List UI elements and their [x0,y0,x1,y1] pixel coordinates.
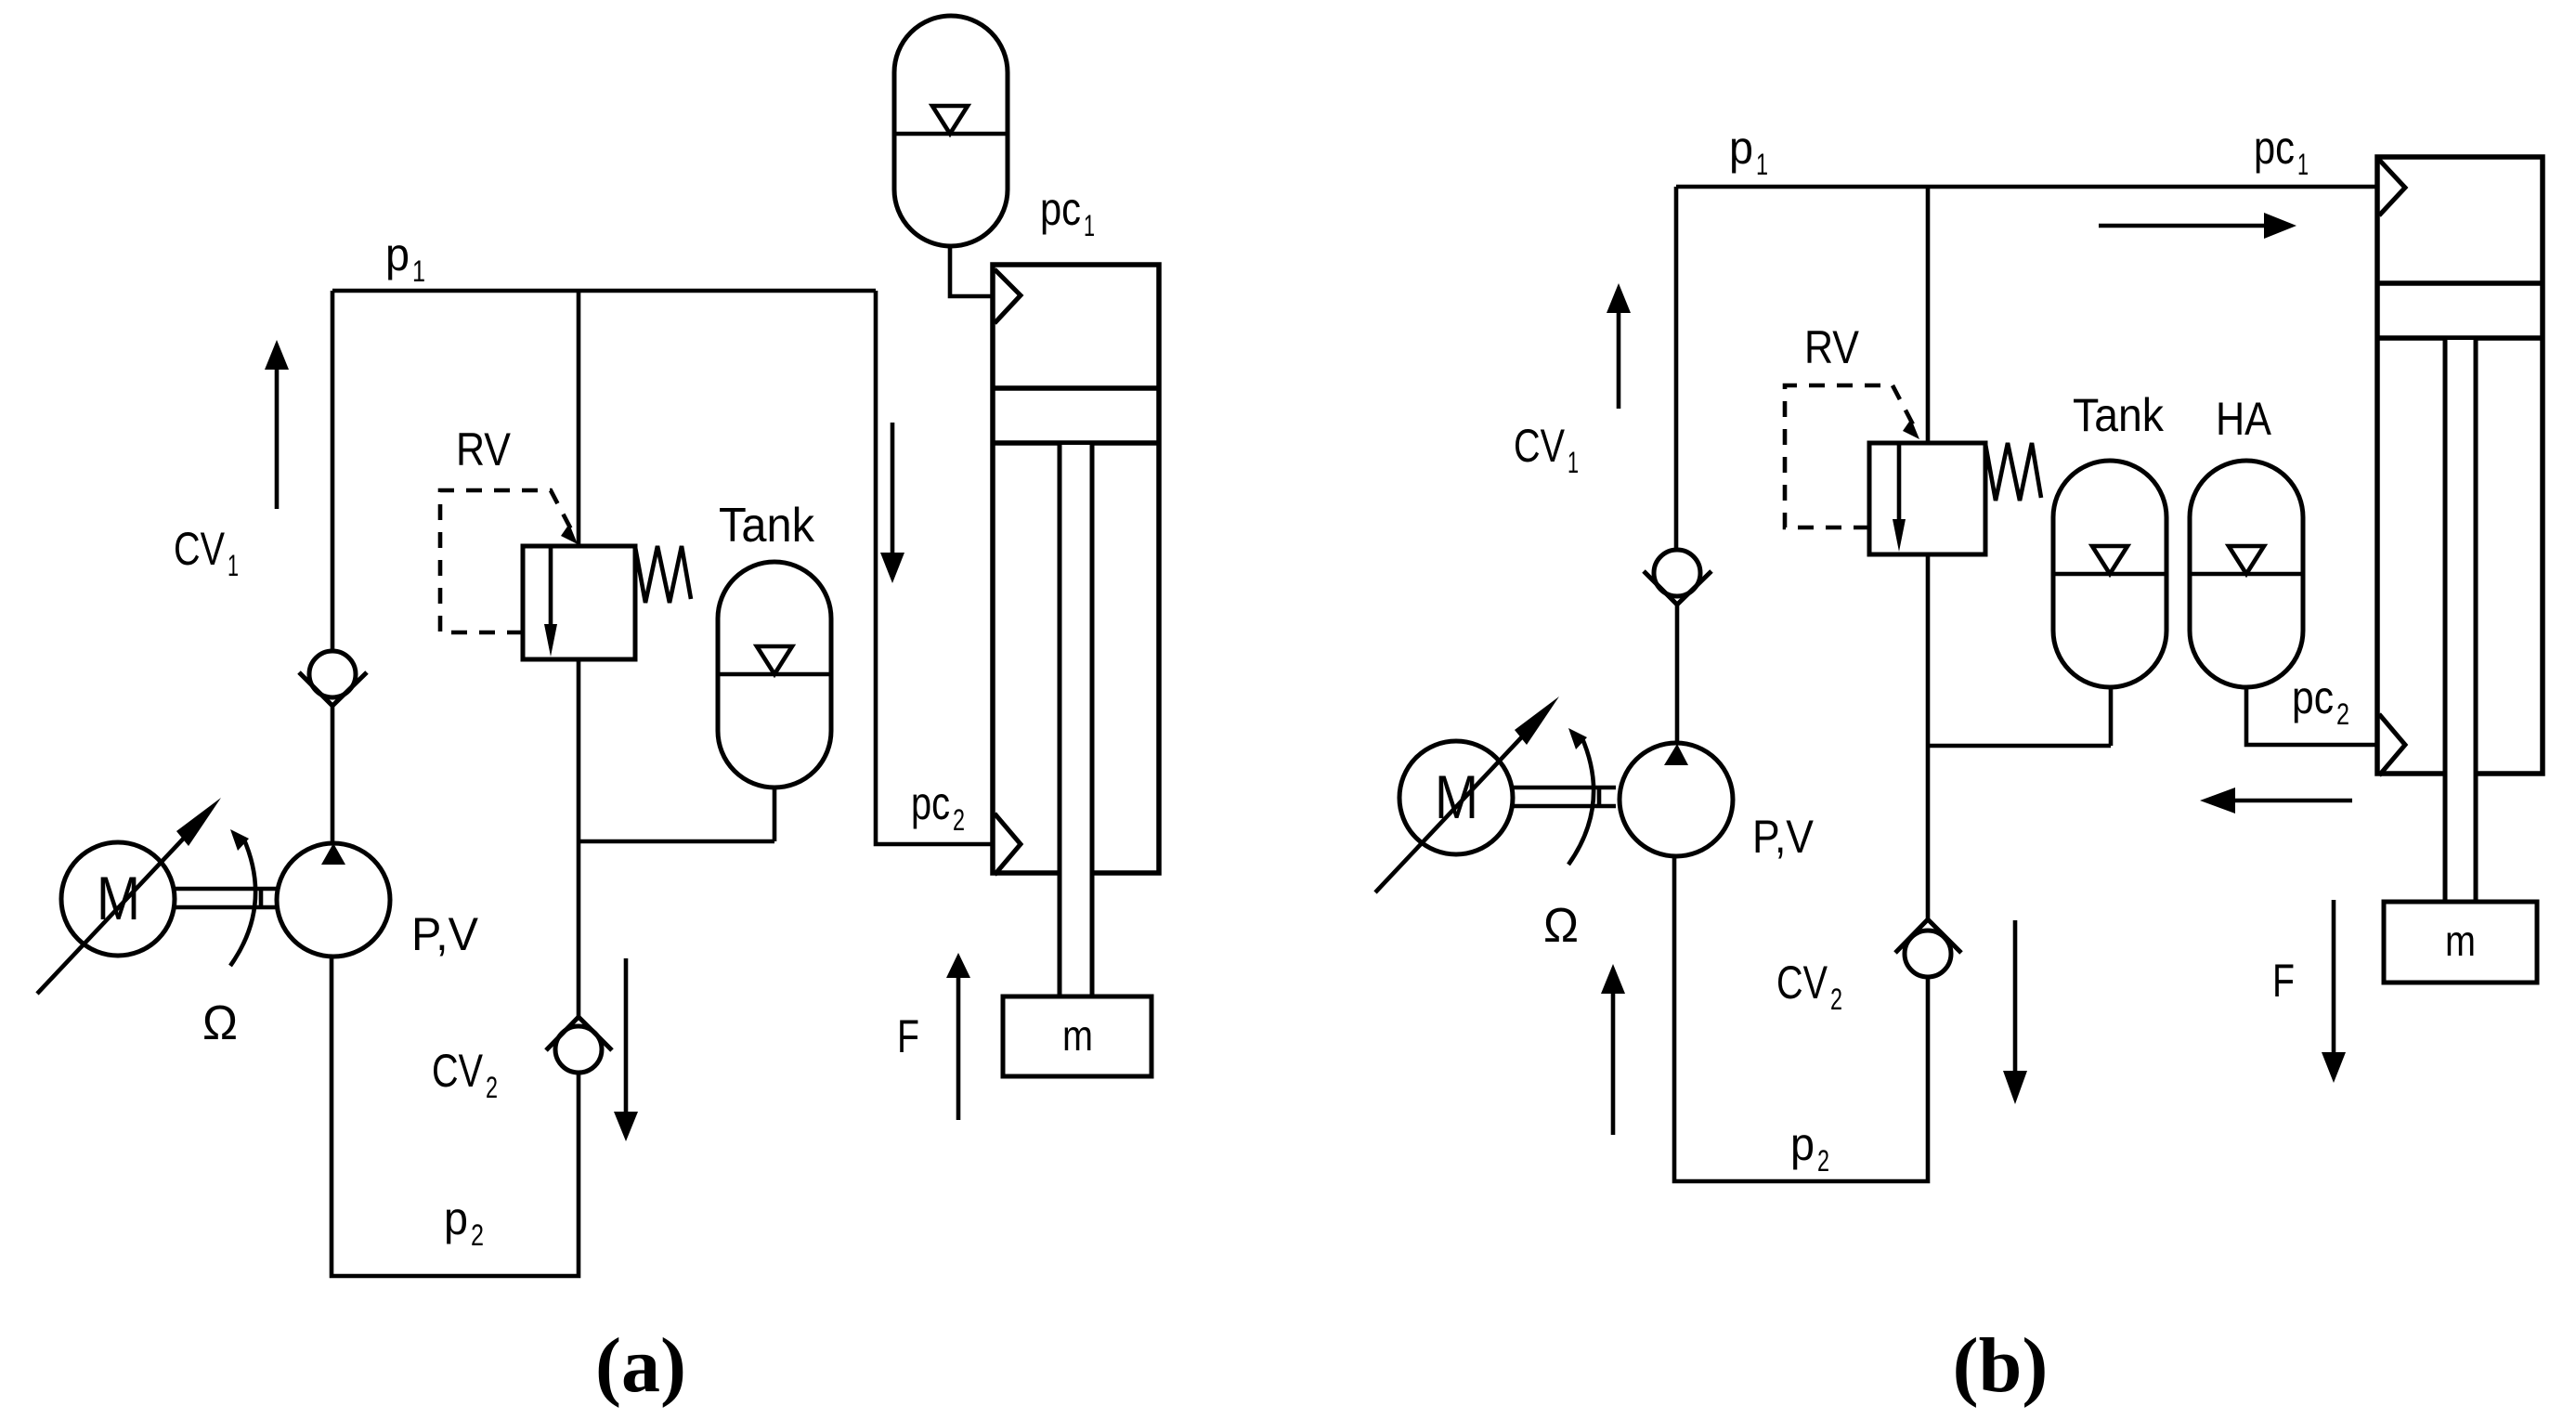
wire p1 to pc2 port (a) [876,291,993,844]
svg-text:pc: pc [2292,671,2334,723]
wire p1 to RV (a) [577,291,581,546]
pump P,V (b) [1620,743,1733,856]
svg-text:2: 2 [486,1071,498,1104]
rotation arrow omega (b) [1568,736,1594,865]
svg-text:pc: pc [2254,122,2295,174]
svg-text:pc: pc [1040,183,1081,235]
wire left branch CV1 (b) [1674,187,1679,549]
flow arrow up CV1 (a) [275,370,280,509]
mass m (b) [2384,902,2537,983]
wire pump to p2 and p2 line and CV2 riser (b) [1674,856,1928,1181]
svg-text:1: 1 [1084,209,1095,242]
piston rod (b) [2447,340,2474,902]
svg-text:2: 2 [1830,983,1842,1016]
svg-text:Ω: Ω [202,996,238,1050]
wire RV to CV2 (b) [1926,554,1931,920]
flow arrow right to pc1 (b) [2099,224,2266,228]
cylinder body (a) [993,265,1159,873]
wire accumulator stem to pc1 port (a) [950,246,993,296]
wire p1 line (a) [332,289,876,293]
rotation arrow omega (a) [230,838,255,966]
mass m (a) [1003,996,1151,1076]
wire junction to tank (b) [1928,687,2111,746]
svg-text:2: 2 [471,1218,484,1252]
flow arrow up CV1 (b) [1617,313,1621,409]
svg-text:p: p [1790,1118,1815,1170]
svg-text:1: 1 [1756,148,1768,181]
svg-text:CV: CV [1514,420,1566,472]
relief valve RV box (a) [523,546,635,659]
wire p1 to RV (b) [1926,187,1931,443]
svg-text:F: F [2272,955,2295,1007]
wire CV1 to pump (a) [331,706,335,844]
force arrow F (b) [2332,900,2336,1052]
svg-text:2: 2 [953,803,965,837]
wire CV1 to pump (b) [1675,605,1680,744]
svg-text:P,V: P,V [411,908,479,960]
piston rod (a) [1061,445,1090,996]
accumulator Tank (a) [718,562,831,788]
svg-text:(b): (b) [1953,1322,2049,1409]
wire RV to CV2 (a) [577,659,581,1016]
electric motor M (b) [1399,741,1513,854]
svg-text:Ω: Ω [1543,899,1579,953]
variable displacement arrow (a) [37,831,190,994]
check valve CV1 (b) [1654,550,1700,596]
relief valve RV spring (a) [635,546,691,603]
cylinder body (b) [2377,157,2543,774]
svg-text:1: 1 [412,254,425,288]
port chevron pc2 (a) [995,814,1021,875]
svg-text:Tank: Tank [719,499,815,553]
svg-text:(a): (a) [595,1322,686,1409]
svg-text:2: 2 [1817,1144,1829,1178]
wire HA to pc2 port (b) [2246,687,2377,745]
flow arrow down beside CV2 (b) [2013,920,2018,1071]
svg-text:RV: RV [1804,321,1860,373]
electric motor M (a) [61,842,175,956]
pump P,V (a) [277,843,390,957]
accumulator pc1 (a) [894,16,1008,246]
svg-text:HA: HA [2216,393,2272,445]
shaft motor-pump (b) [1513,788,1616,806]
svg-text:P,V: P,V [1752,811,1815,863]
force arrow F (a) [956,978,961,1120]
wire junction to tank (a) [579,788,774,841]
svg-text:m: m [1062,1011,1093,1060]
flow arrow down to pc2 (a) [891,423,895,553]
svg-text:CV: CV [174,523,226,575]
svg-text:pc: pc [911,777,950,829]
accumulator Tank (b) [2053,461,2166,687]
accumulator HA (b) [2190,461,2303,687]
svg-text:2: 2 [2336,697,2349,731]
check valve CV2 (a) [546,1017,612,1050]
svg-text:p: p [385,228,410,280]
svg-text:p: p [1729,122,1753,174]
svg-text:CV: CV [432,1045,484,1097]
piston (b) [2377,283,2543,338]
port chevron pc1 (b) [2379,160,2405,215]
svg-text:m: m [2445,917,2476,965]
dashed pilot line RV (b) [1785,385,1913,527]
relief valve RV box (b) [1869,443,1985,554]
svg-text:RV: RV [456,423,512,475]
relief valve RV spring (b) [1985,443,2041,501]
svg-text:1: 1 [1568,446,1579,479]
wire pump to p2 and p2 line and CV2 riser (a) [332,957,579,1276]
svg-text:CV: CV [1776,957,1828,1009]
dashed pilot line RV (a) [440,490,571,632]
port chevron pc2 (b) [2379,714,2405,775]
flow arrow left from pc2 (b) [2235,799,2352,803]
svg-text:p: p [444,1192,468,1244]
piston (a) [993,388,1159,443]
relief valve RV internal arrow (b) [1897,443,1902,522]
variable displacement arrow (b) [1375,730,1529,892]
svg-text:1: 1 [2297,148,2309,181]
check valve CV1 (a) [309,651,356,697]
svg-text:F: F [897,1010,919,1062]
flow arrow up beside p2 (b) [1611,994,1616,1135]
flow arrow down beside CV2 (a) [624,958,629,1112]
check valve CV2 (b) [1895,919,1961,953]
wire p1 line (b) [1676,185,2377,189]
wire left branch CV1 (a) [331,291,335,651]
svg-text:Tank: Tank [2073,389,2165,441]
relief valve RV internal arrow (a) [549,546,553,627]
shaft motor-pump (a) [175,889,278,907]
port chevron pc1 (a) [995,269,1021,323]
svg-text:1: 1 [228,549,239,582]
